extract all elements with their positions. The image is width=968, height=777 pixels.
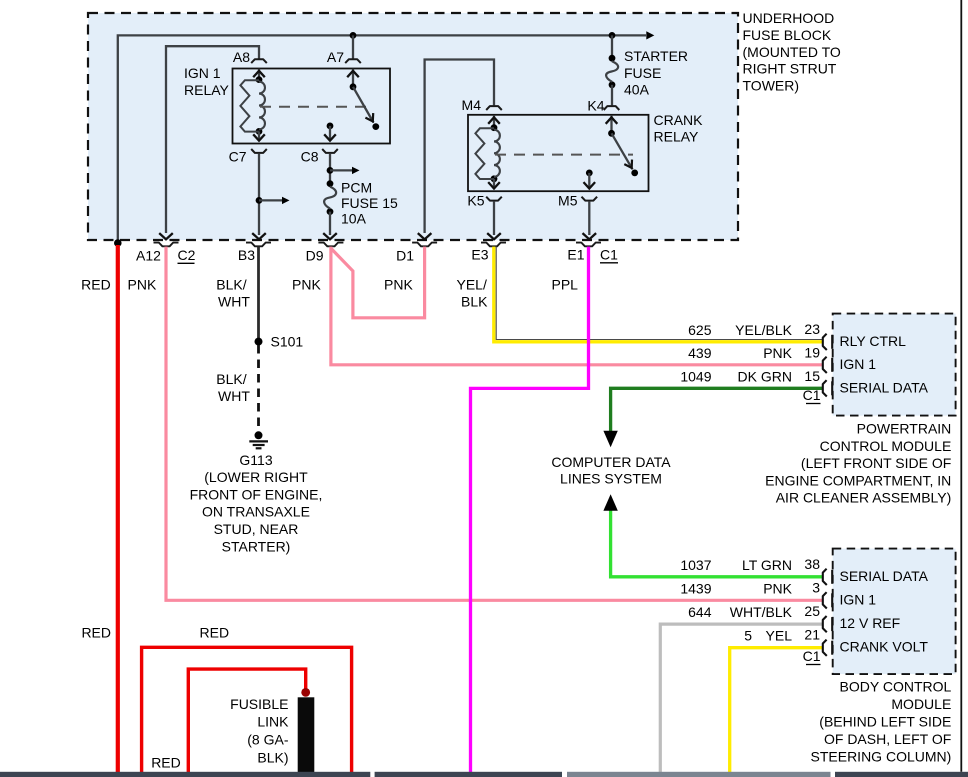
svg-text:LINK: LINK xyxy=(257,714,289,730)
svg-text:RED: RED xyxy=(81,277,111,293)
svg-text:YEL: YEL xyxy=(766,628,793,644)
svg-text:E1: E1 xyxy=(567,247,584,263)
svg-text:FUSE 15: FUSE 15 xyxy=(341,195,398,211)
svg-text:(LOWER RIGHT: (LOWER RIGHT xyxy=(204,469,308,485)
svg-text:38: 38 xyxy=(804,556,820,572)
svg-text:YEL/: YEL/ xyxy=(457,277,487,293)
svg-text:A12: A12 xyxy=(136,248,161,264)
svg-text:(8 GA-: (8 GA- xyxy=(247,732,289,748)
svg-text:RIGHT STRUT: RIGHT STRUT xyxy=(743,61,837,77)
svg-text:10A: 10A xyxy=(341,211,367,227)
svg-text:12 V REF: 12 V REF xyxy=(840,615,901,631)
svg-text:PNK: PNK xyxy=(763,345,792,361)
svg-text:AIR CLEANER ASSEMBLY): AIR CLEANER ASSEMBLY) xyxy=(776,490,952,506)
svg-text:SERIAL DATA: SERIAL DATA xyxy=(840,568,929,584)
svg-text:C7: C7 xyxy=(229,149,247,165)
svg-text:RED: RED xyxy=(151,755,181,771)
svg-text:C1: C1 xyxy=(803,387,821,403)
svg-text:FRONT OF ENGINE,: FRONT OF ENGINE, xyxy=(190,486,323,502)
svg-text:40A: 40A xyxy=(624,82,650,98)
svg-text:644: 644 xyxy=(688,604,712,620)
svg-text:PNK: PNK xyxy=(128,277,157,293)
svg-text:1049: 1049 xyxy=(680,369,711,385)
svg-text:DK GRN: DK GRN xyxy=(738,369,792,385)
svg-text:23: 23 xyxy=(804,321,820,337)
svg-text:UNDERHOOD: UNDERHOOD xyxy=(743,10,835,26)
svg-text:439: 439 xyxy=(688,345,712,361)
svg-text:STEERING COLUMN): STEERING COLUMN) xyxy=(811,749,952,765)
svg-text:ON TRANSAXLE: ON TRANSAXLE xyxy=(202,504,310,520)
svg-text:OF DASH, LEFT OF: OF DASH, LEFT OF xyxy=(824,731,951,747)
svg-text:K4: K4 xyxy=(587,98,604,114)
svg-text:25: 25 xyxy=(804,603,820,619)
svg-text:D1: D1 xyxy=(396,248,414,264)
svg-text:STUD, NEAR: STUD, NEAR xyxy=(214,521,299,537)
svg-text:SERIAL DATA: SERIAL DATA xyxy=(840,380,929,396)
svg-text:C1: C1 xyxy=(600,247,618,263)
svg-text:RED: RED xyxy=(200,625,230,641)
svg-text:WHT/BLK: WHT/BLK xyxy=(730,604,793,620)
svg-text:G113: G113 xyxy=(239,452,272,468)
svg-text:K5: K5 xyxy=(467,193,484,209)
svg-text:FUSIBLE: FUSIBLE xyxy=(230,696,288,712)
svg-text:LINES SYSTEM: LINES SYSTEM xyxy=(560,471,662,487)
svg-text:WHT: WHT xyxy=(218,294,250,310)
svg-text:RLY CTRL: RLY CTRL xyxy=(840,333,907,349)
svg-text:D9: D9 xyxy=(306,248,324,264)
svg-text:POWERTRAIN: POWERTRAIN xyxy=(857,421,952,437)
svg-text:IGN 1: IGN 1 xyxy=(184,65,221,81)
svg-text:A8: A8 xyxy=(233,49,250,65)
svg-text:LT GRN: LT GRN xyxy=(742,557,792,573)
svg-text:M5: M5 xyxy=(558,193,578,209)
svg-text:BLK: BLK xyxy=(461,294,488,310)
svg-text:PPL: PPL xyxy=(552,277,579,293)
svg-text:M4: M4 xyxy=(462,97,482,113)
svg-text:C2: C2 xyxy=(178,247,196,263)
svg-text:19: 19 xyxy=(804,345,820,361)
svg-text:RELAY: RELAY xyxy=(654,129,700,145)
svg-text:21: 21 xyxy=(804,627,820,643)
svg-text:CRANK VOLT: CRANK VOLT xyxy=(840,639,929,655)
svg-text:RED: RED xyxy=(81,625,111,641)
svg-text:BLK/: BLK/ xyxy=(216,371,246,387)
svg-text:FUSE BLOCK: FUSE BLOCK xyxy=(743,27,832,43)
svg-text:PNK: PNK xyxy=(763,581,792,597)
svg-text:E3: E3 xyxy=(471,247,488,263)
svg-text:BODY CONTROL: BODY CONTROL xyxy=(840,679,952,695)
svg-text:1037: 1037 xyxy=(680,557,711,573)
svg-text:C8: C8 xyxy=(301,149,319,165)
svg-text:FUSE: FUSE xyxy=(624,65,661,81)
svg-text:COMPUTER DATA: COMPUTER DATA xyxy=(551,454,671,470)
svg-text:5: 5 xyxy=(744,628,752,644)
svg-text:STARTER): STARTER) xyxy=(222,538,291,554)
svg-text:CONTROL MODULE: CONTROL MODULE xyxy=(820,438,952,454)
svg-text:CRANK: CRANK xyxy=(654,112,704,128)
svg-text:MODULE: MODULE xyxy=(891,696,951,712)
svg-text:15: 15 xyxy=(804,368,820,384)
svg-text:(MOUNTED TO: (MOUNTED TO xyxy=(743,44,841,60)
svg-text:WHT: WHT xyxy=(218,388,250,404)
svg-text:PNK: PNK xyxy=(384,277,413,293)
svg-text:3: 3 xyxy=(812,580,820,596)
svg-text:IGN 1: IGN 1 xyxy=(840,591,877,607)
svg-text:PNK: PNK xyxy=(292,277,321,293)
svg-text:C1: C1 xyxy=(803,648,821,664)
svg-text:S101: S101 xyxy=(271,334,304,350)
svg-text:IGN 1: IGN 1 xyxy=(840,356,877,372)
svg-text:STARTER: STARTER xyxy=(624,48,688,64)
svg-text:1439: 1439 xyxy=(680,581,711,597)
svg-text:(LEFT FRONT SIDE OF: (LEFT FRONT SIDE OF xyxy=(801,455,951,471)
svg-text:(BEHIND LEFT SIDE: (BEHIND LEFT SIDE xyxy=(819,714,951,730)
svg-text:RELAY: RELAY xyxy=(184,82,230,98)
svg-text:A7: A7 xyxy=(327,49,344,65)
svg-text:BLK/: BLK/ xyxy=(216,277,246,293)
svg-text:B3: B3 xyxy=(238,247,255,263)
svg-text:625: 625 xyxy=(688,322,712,338)
svg-text:PCM: PCM xyxy=(341,180,372,196)
svg-text:YEL/BLK: YEL/BLK xyxy=(735,322,792,338)
svg-text:BLK): BLK) xyxy=(257,750,288,766)
svg-text:TOWER): TOWER) xyxy=(743,77,800,93)
svg-text:ENGINE COMPARTMENT, IN: ENGINE COMPARTMENT, IN xyxy=(765,472,951,488)
